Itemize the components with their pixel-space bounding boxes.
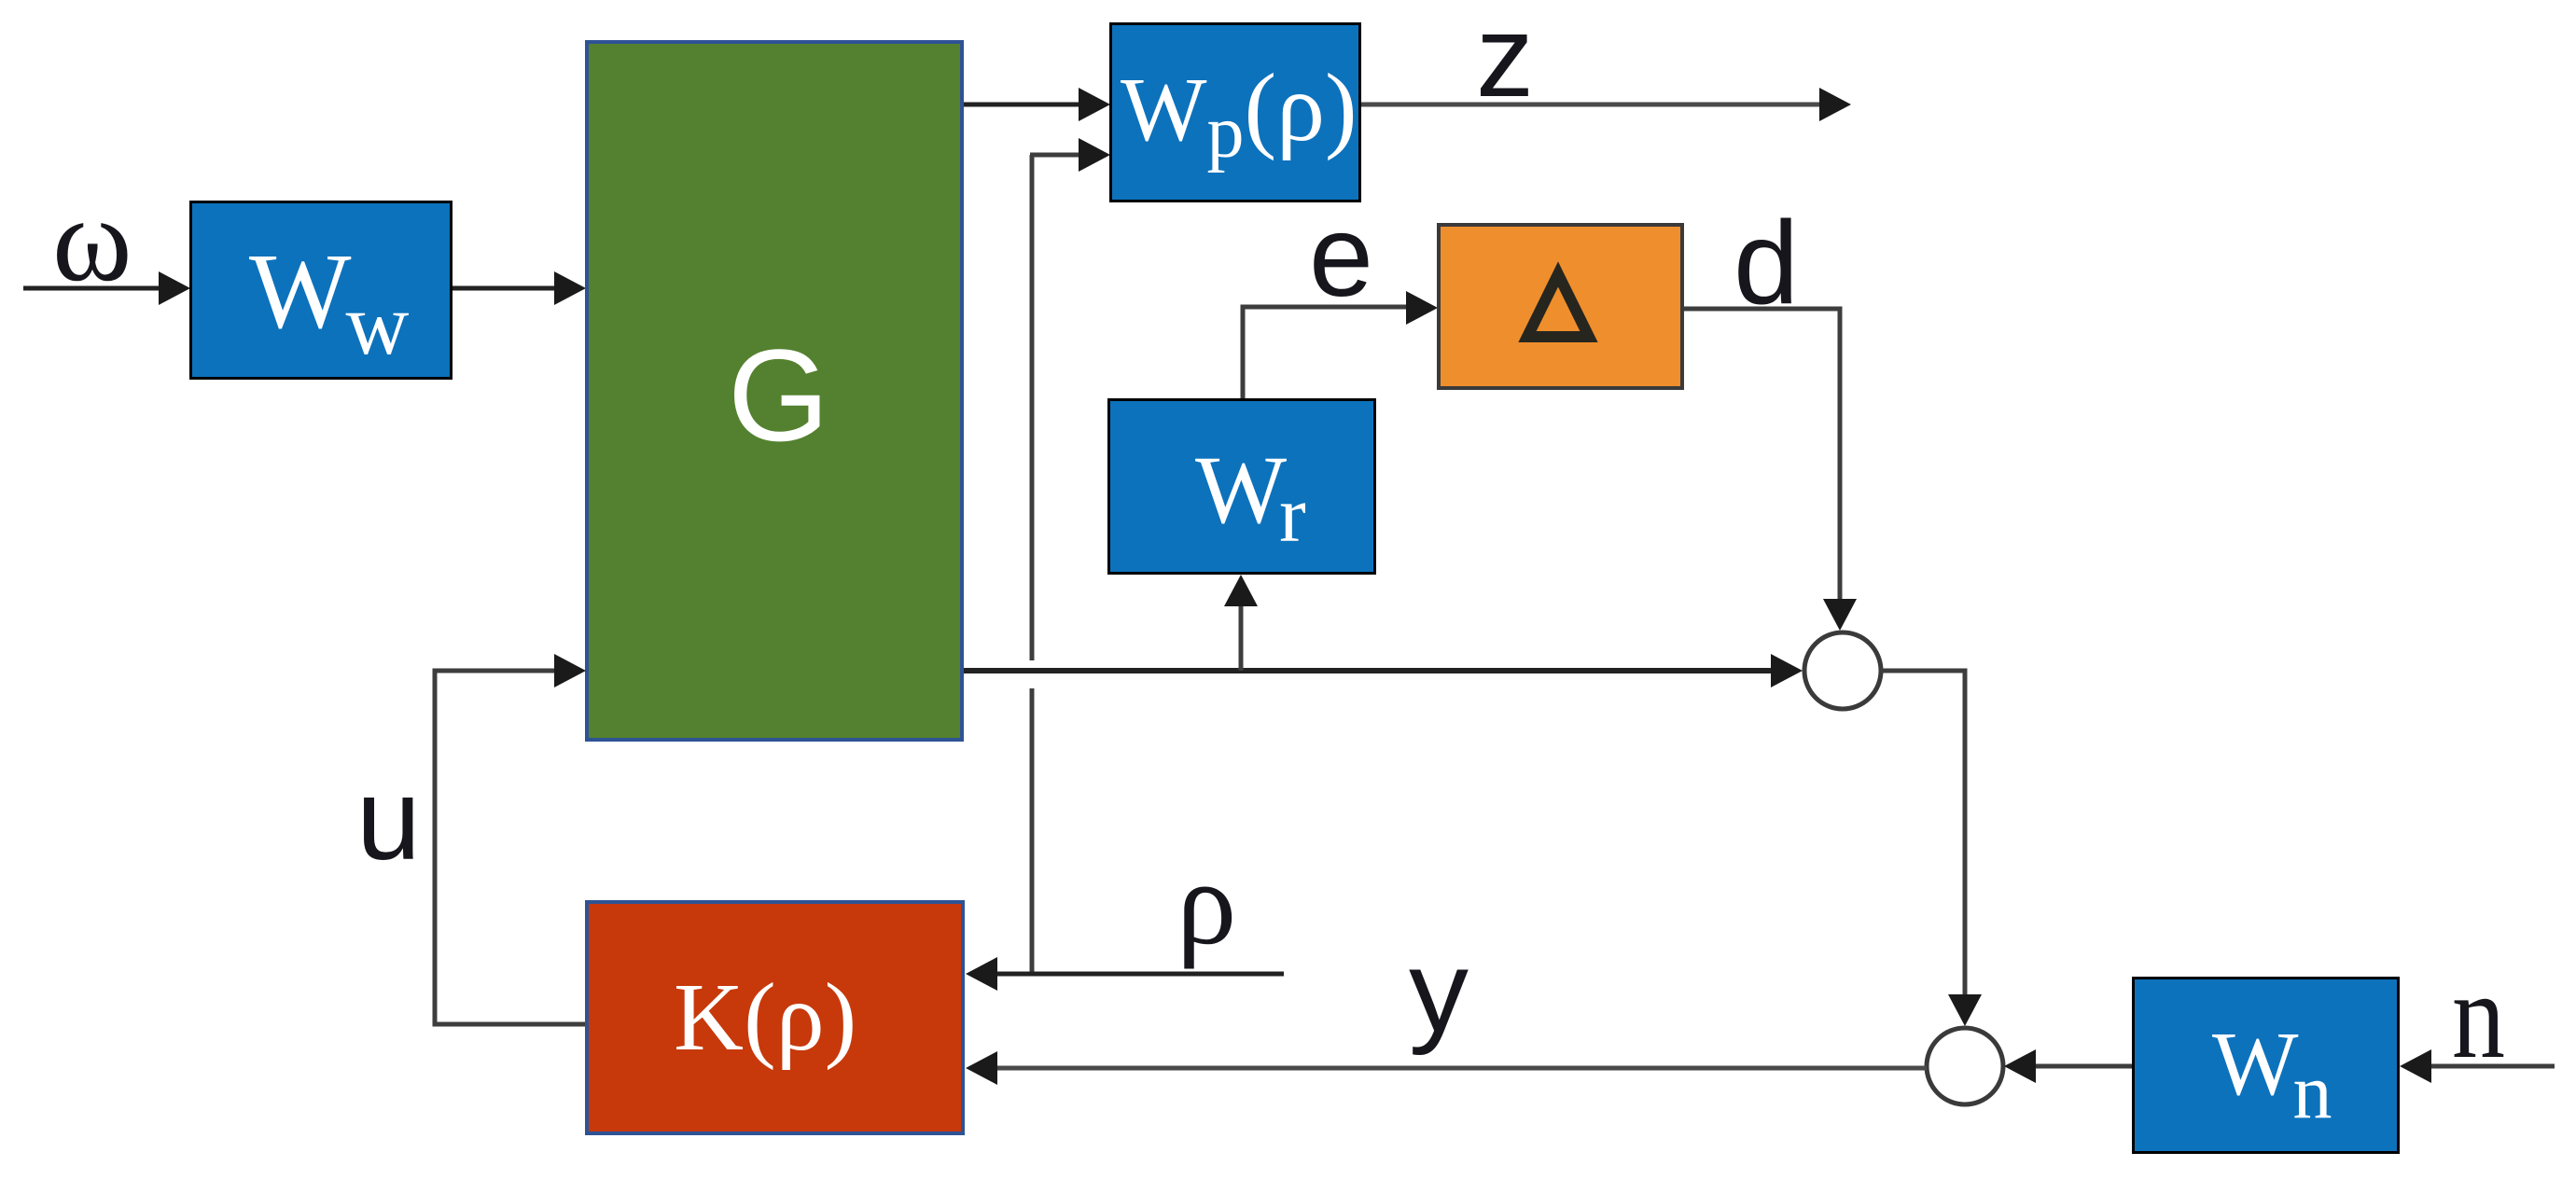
wire z output bbox=[1361, 88, 1851, 121]
block G bbox=[587, 42, 962, 740]
block Wp(rho) bbox=[1111, 24, 1360, 201]
svg-text:G: G bbox=[728, 322, 829, 468]
wire feed up into Wr bbox=[1224, 575, 1258, 671]
wire G to Wp bbox=[964, 88, 1110, 121]
block K(rho) bbox=[587, 902, 963, 1133]
svg-text:e: e bbox=[1309, 192, 1373, 321]
wire Wn to sum2 bbox=[2004, 1049, 2132, 1083]
block Delta bbox=[1439, 225, 1682, 388]
node n label bbox=[2452, 947, 2505, 1084]
wire rho stub into K bbox=[966, 957, 1284, 991]
wire u loop from K to G bbox=[435, 654, 586, 1024]
summing junction sum1 bbox=[1804, 632, 1881, 709]
node z label bbox=[1476, 0, 1534, 121]
wire y from sum2 to K bbox=[966, 1051, 1927, 1085]
wire n input bbox=[2400, 1049, 2555, 1083]
svg-text:ω: ω bbox=[52, 173, 132, 307]
node y label bbox=[1409, 927, 1469, 1056]
node d label bbox=[1734, 197, 1799, 328]
block Ww bbox=[191, 202, 452, 379]
wire omega input bbox=[23, 271, 190, 305]
wire sum1 to sum2 bbox=[1881, 671, 1982, 1026]
svg-text:z: z bbox=[1476, 0, 1534, 121]
svg-text:u: u bbox=[356, 756, 421, 884]
svg-text:y: y bbox=[1409, 927, 1469, 1056]
summing junction sum2 bbox=[1927, 1028, 2003, 1104]
wire rho feed vertical bbox=[1030, 155, 1035, 974]
wire rho into Wp bbox=[1030, 138, 1110, 172]
wire G main output to sum1 bbox=[964, 654, 1803, 687]
svg-text:n: n bbox=[2452, 947, 2505, 1084]
wire d from Delta to sum1 bbox=[1684, 309, 1857, 631]
node e label bbox=[1309, 192, 1373, 321]
block Wr bbox=[1109, 400, 1375, 574]
node omega label bbox=[52, 173, 132, 307]
wire e from Wr to Delta bbox=[1243, 291, 1438, 401]
node u label bbox=[356, 756, 421, 884]
node rho label bbox=[1177, 836, 1236, 969]
svg-text:K(ρ): K(ρ) bbox=[674, 964, 856, 1071]
wire Ww to G bbox=[453, 271, 586, 305]
block Wn bbox=[2134, 979, 2399, 1153]
svg-text:ρ: ρ bbox=[1177, 836, 1236, 969]
